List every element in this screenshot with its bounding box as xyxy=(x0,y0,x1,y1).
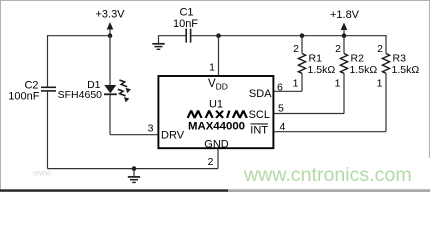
svg-text:R1: R1 xyxy=(309,52,323,64)
capacitor C1 xyxy=(186,29,190,43)
IC U1 MAX44000 body xyxy=(158,76,273,148)
junction dot VDD xyxy=(216,33,221,38)
resistor R1 xyxy=(298,36,305,92)
bottom border bar xyxy=(0,189,228,191)
wire C1 left lead xyxy=(158,35,186,37)
junction dot R1 top xyxy=(300,33,305,38)
svg-text:MAX44000: MAX44000 xyxy=(188,121,245,133)
junction dot ground node xyxy=(132,166,137,171)
svg-text:+1.8V: +1.8V xyxy=(330,9,360,21)
svg-text:2: 2 xyxy=(293,43,299,55)
svg-text:1: 1 xyxy=(335,78,341,90)
power +3.3V xyxy=(95,9,125,36)
U1 INT pin label (active low) xyxy=(250,124,268,137)
wire SCL pin 5 xyxy=(274,113,345,115)
LED D1 xyxy=(104,80,131,102)
wire SDA pin 6 xyxy=(274,90,303,92)
wire INT pin 4 xyxy=(274,131,387,133)
svg-text:C1: C1 xyxy=(179,7,193,19)
svg-text:2: 2 xyxy=(208,156,214,168)
wire bottom ground rail xyxy=(48,168,219,170)
svg-text:R2: R2 xyxy=(351,52,365,64)
svg-text:GND: GND xyxy=(204,139,229,151)
svg-text:1: 1 xyxy=(293,78,299,90)
wire left column C2 to bottom rail xyxy=(47,91,49,169)
svg-text:www.cntronics.com: www.cntronics.com xyxy=(243,164,412,186)
wire left column down to C2 xyxy=(47,35,49,87)
svg-text:4: 4 xyxy=(280,121,286,133)
junction dot +3.3V node xyxy=(108,33,113,38)
power +1.8V xyxy=(330,9,360,36)
svg-text:1.5kΩ: 1.5kΩ xyxy=(350,64,378,76)
svg-text:6: 6 xyxy=(277,82,283,94)
svg-text:5: 5 xyxy=(278,103,284,115)
wire D1 cathode down xyxy=(109,94,111,134)
capacitor C2 xyxy=(41,87,56,91)
resistor R3 xyxy=(382,35,389,132)
svg-text:1.5kΩ: 1.5kΩ xyxy=(308,64,336,76)
svg-text:DRV: DRV xyxy=(161,130,185,142)
ground (main) xyxy=(128,169,140,183)
svg-text:2: 2 xyxy=(335,43,341,55)
svg-text:100nF: 100nF xyxy=(8,90,39,102)
wire GND pin 2 drop xyxy=(217,149,219,169)
ground (C1) xyxy=(152,36,164,50)
svg-text:U1: U1 xyxy=(209,98,223,110)
svg-text:R3: R3 xyxy=(393,52,407,64)
svg-text:SFH4650: SFH4650 xyxy=(58,89,103,101)
wire +3.3V down to D1 xyxy=(109,36,111,85)
wire VDD pin 1 drop xyxy=(218,36,220,76)
junction dot R2 top / +1.8V node xyxy=(342,33,347,38)
wire +3.3V rail horizontal xyxy=(48,35,111,37)
MAXIM logo xyxy=(188,111,247,118)
wire DRV pin 3 xyxy=(110,134,158,136)
svg-text:+3.3V: +3.3V xyxy=(95,9,125,21)
wire top rail C1 to R3 xyxy=(191,35,386,37)
svg-text:INT: INT xyxy=(250,125,268,137)
resistor R2 xyxy=(340,36,347,114)
svg-text:10nF: 10nF xyxy=(173,18,198,30)
svg-text:1.5kΩ: 1.5kΩ xyxy=(392,64,420,76)
svg-text:1: 1 xyxy=(377,78,383,90)
svg-text:3: 3 xyxy=(148,122,154,134)
watermark www.cntronics.com xyxy=(228,158,430,189)
svg-text:SDA: SDA xyxy=(249,88,272,100)
svg-text:1: 1 xyxy=(209,62,215,74)
svg-text:2: 2 xyxy=(377,43,383,55)
svg-text:SCL: SCL xyxy=(249,109,270,121)
